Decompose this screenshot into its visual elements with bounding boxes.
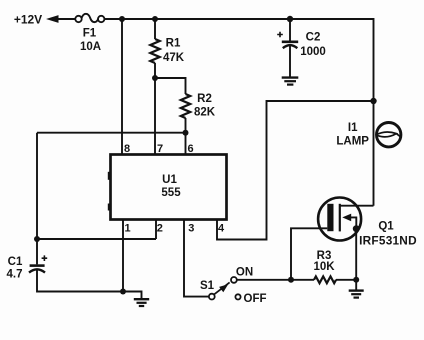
svg-text:555: 555 xyxy=(161,187,181,199)
svg-text:F1: F1 xyxy=(83,28,97,40)
svg-text:4: 4 xyxy=(218,223,225,235)
svg-text:7: 7 xyxy=(157,143,163,155)
svg-text:R1: R1 xyxy=(166,37,181,49)
svg-text:C1: C1 xyxy=(8,256,23,268)
svg-text:U1: U1 xyxy=(162,174,177,186)
svg-text:82K: 82K xyxy=(194,107,216,119)
svg-text:OFF: OFF xyxy=(244,293,267,305)
svg-text:8: 8 xyxy=(124,143,130,155)
svg-text:6: 6 xyxy=(187,143,193,155)
svg-text:3: 3 xyxy=(188,223,194,235)
svg-text:ON: ON xyxy=(236,267,253,279)
svg-text:+12V: +12V xyxy=(14,13,42,27)
svg-text:4.7: 4.7 xyxy=(7,269,23,281)
svg-text:1000: 1000 xyxy=(300,46,326,58)
svg-text:S1: S1 xyxy=(200,280,215,292)
svg-text:Q1: Q1 xyxy=(378,221,394,233)
svg-text:IRF531ND: IRF531ND xyxy=(359,234,417,248)
svg-text:47K: 47K xyxy=(163,52,185,64)
svg-text:LAMP: LAMP xyxy=(336,135,369,147)
svg-text:R2: R2 xyxy=(197,93,212,105)
svg-text:2: 2 xyxy=(157,223,163,235)
svg-text:1: 1 xyxy=(124,223,130,235)
svg-text:10K: 10K xyxy=(313,261,335,273)
svg-text:10A: 10A xyxy=(80,41,101,53)
svg-text:I1: I1 xyxy=(348,122,358,134)
svg-text:C2: C2 xyxy=(306,32,321,44)
